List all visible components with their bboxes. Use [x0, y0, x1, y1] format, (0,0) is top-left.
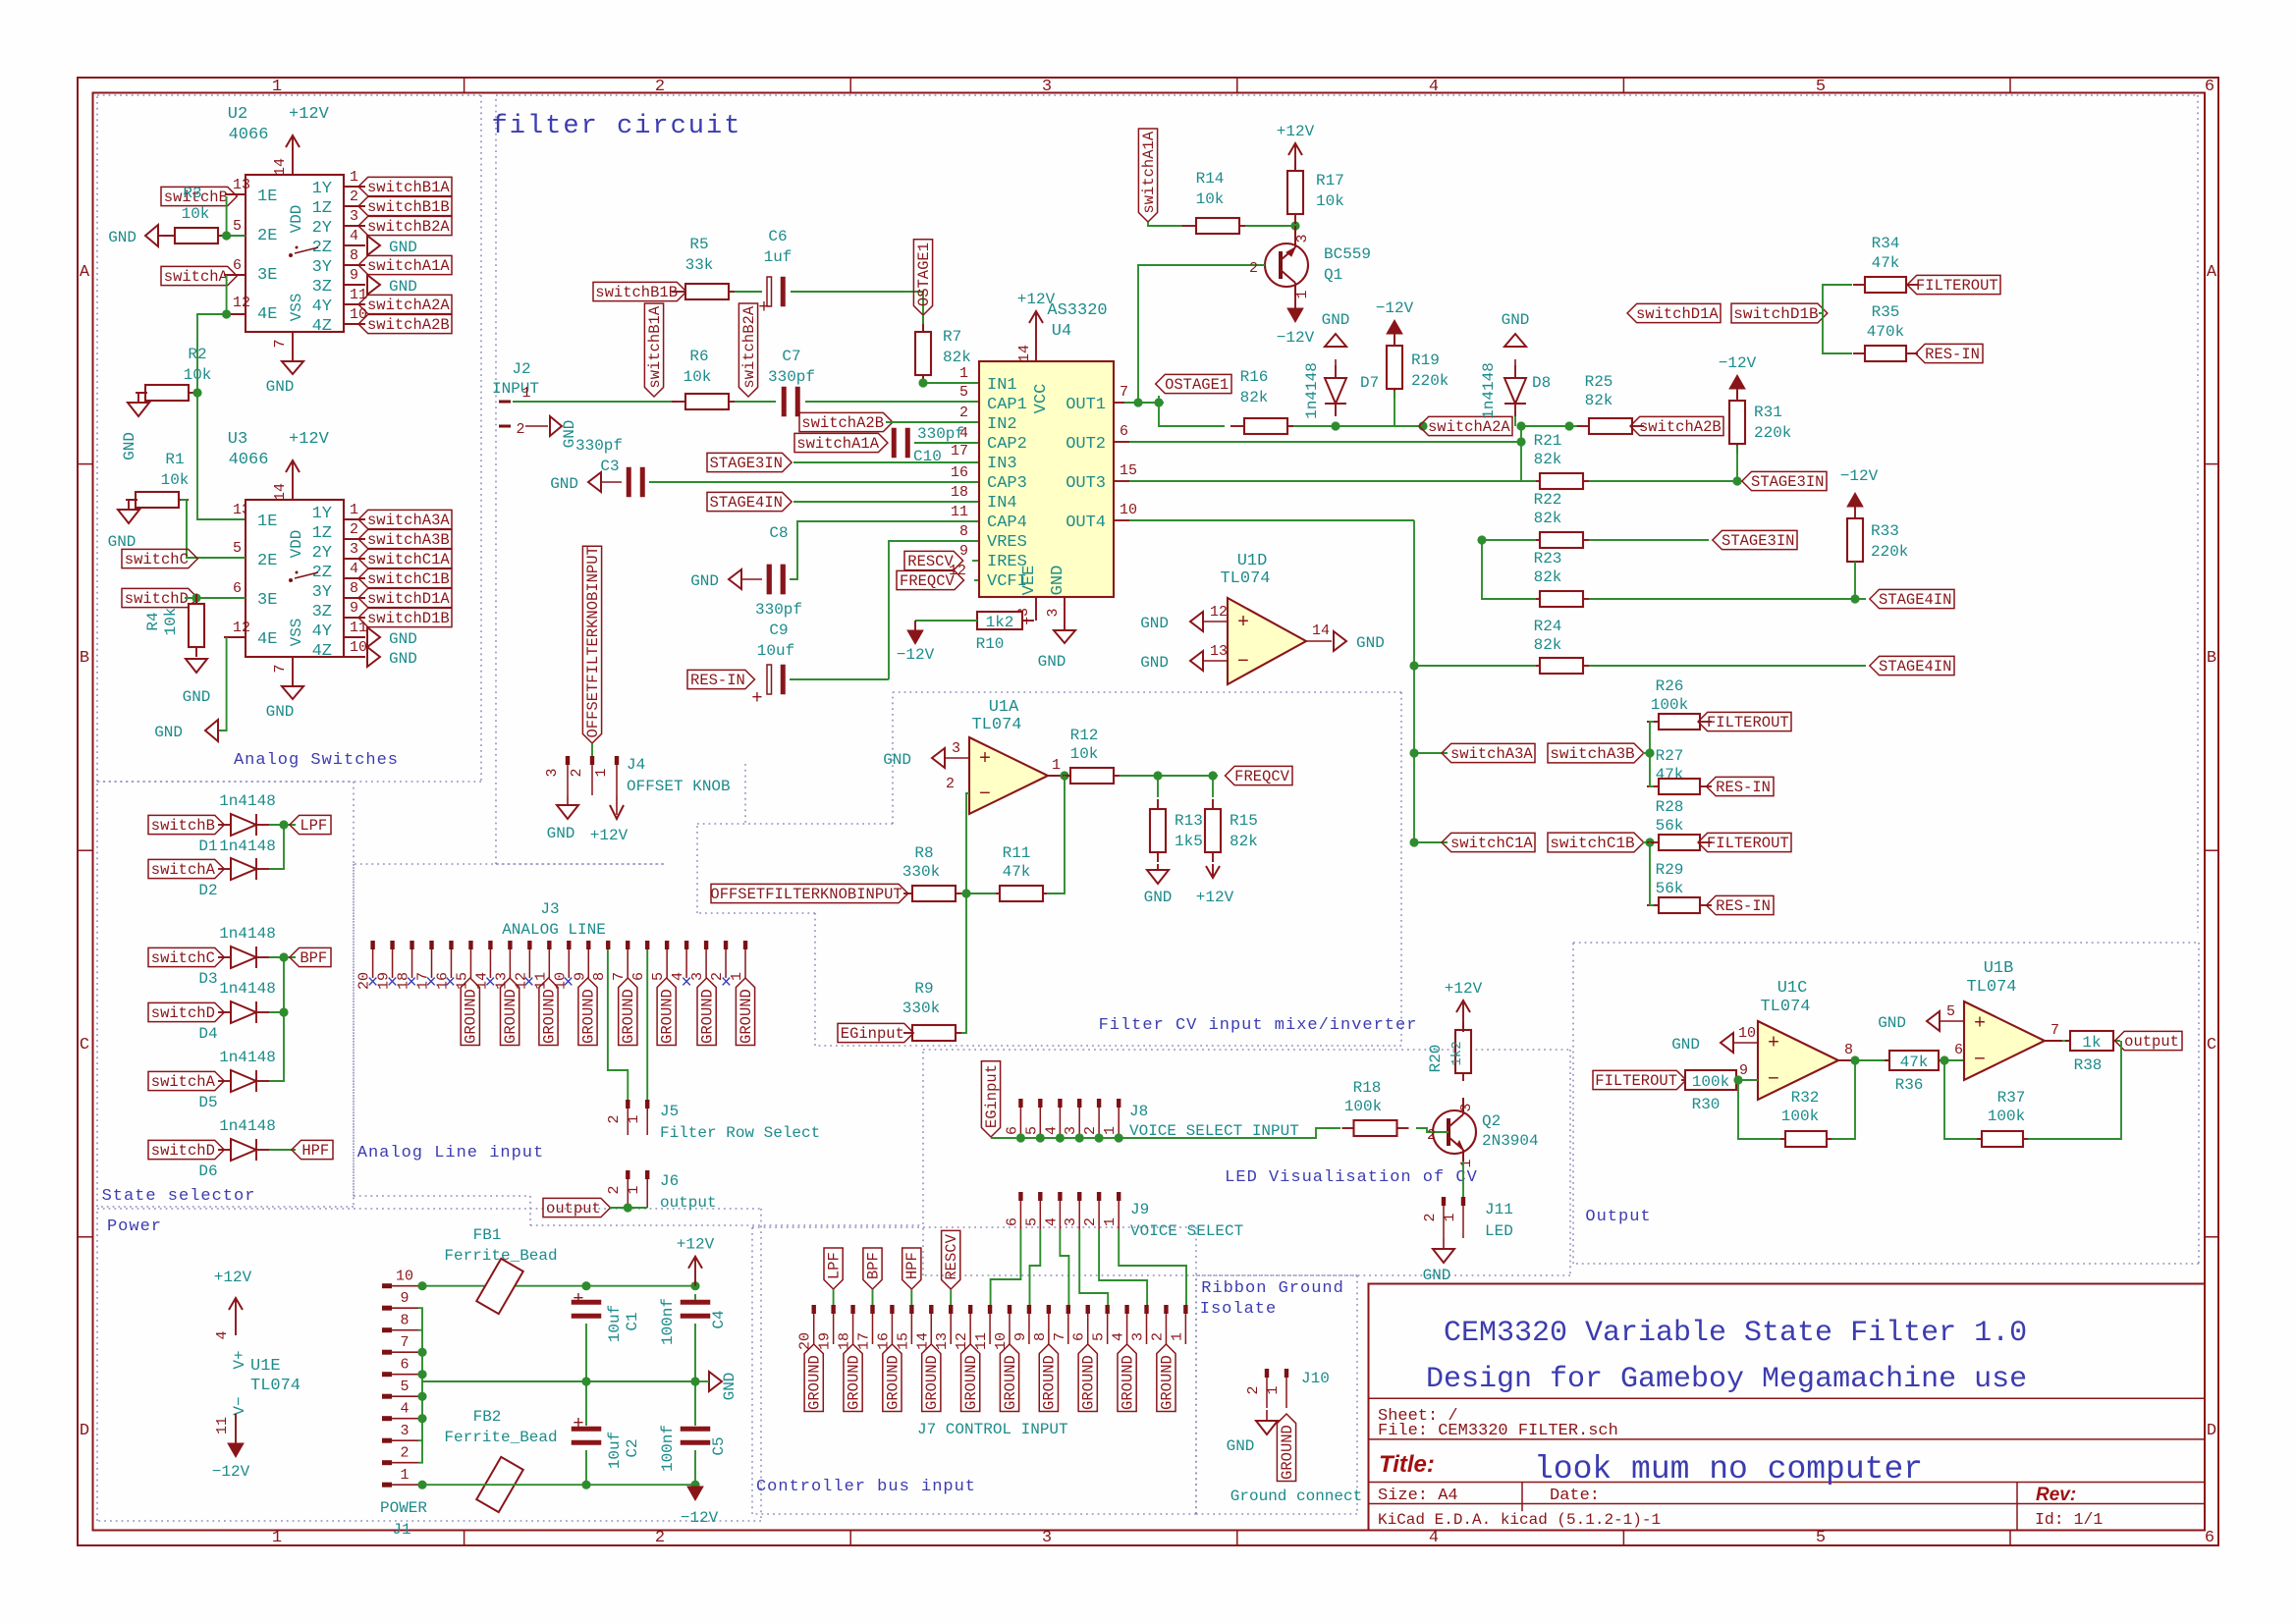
svg-text:R19: R19: [1411, 352, 1440, 369]
wire OUT4 pin 10 long to U1D region: [1114, 519, 1129, 521]
svg-text:OSTAGE1: OSTAGE1: [1165, 376, 1229, 394]
svg-text:−: −: [1974, 1049, 1986, 1071]
U2 pin 13 wire and label switchB: [225, 193, 246, 195]
svg-text:3: 3: [1042, 1529, 1052, 1547]
svg-text:13: 13: [1210, 643, 1228, 660]
wire C10 to CAP2 pin 4: [914, 442, 979, 444]
J3 pin 11 GROUND label: [539, 978, 558, 1045]
wire bus to R22: [1482, 539, 1536, 541]
svg-text:GROUND: GROUND: [698, 989, 716, 1044]
svg-text:82k: 82k: [1240, 389, 1269, 406]
svg-text:OUT4: OUT4: [1066, 514, 1106, 532]
svg-text:GROUND: GROUND: [620, 989, 637, 1044]
svg-text:Title:: Title:: [1379, 1451, 1435, 1478]
U4 VEE pin 13 to R10: [1035, 597, 1037, 621]
svg-text:POWER: POWER: [380, 1499, 427, 1517]
svg-text:×: ×: [484, 972, 495, 994]
wire J9 to J7 pin 7: [1060, 1229, 1068, 1305]
svg-text:RESCV: RESCV: [943, 1233, 960, 1279]
svg-text:look mum no computer: look mum no computer: [1534, 1451, 1923, 1488]
svg-text:switchD1A: switchD1A: [367, 590, 450, 608]
svg-text:1: 1: [350, 502, 358, 518]
svg-text:+: +: [1237, 612, 1249, 634]
resistor R10 1k2: [965, 620, 977, 622]
wire switchA2A net down to R21: [1520, 426, 1522, 481]
svg-text:Isolate: Isolate: [1200, 1300, 1277, 1319]
wire pin12 net to R2: [197, 314, 227, 393]
svg-text:17: 17: [951, 443, 968, 460]
J3 pin 12: [527, 941, 531, 949]
J8 pin 4: [1058, 1099, 1062, 1108]
svg-text:3: 3: [350, 541, 358, 558]
J3 pin 1: [743, 941, 747, 949]
svg-text:output: output: [546, 1200, 601, 1217]
svg-text:−12V: −12V: [1376, 299, 1414, 317]
svg-text:5: 5: [233, 540, 242, 557]
svg-text:R13: R13: [1175, 812, 1203, 830]
transistor Q2 2N3904: [1433, 1110, 1476, 1154]
svg-text:GND: GND: [1140, 615, 1169, 632]
connector J4 OFFSET KNOB pins: [566, 756, 570, 765]
svg-text:Analog Line input: Analog Line input: [357, 1144, 544, 1163]
svg-text:FREQCV: FREQCV: [1234, 768, 1290, 785]
J7 pin 1: [1183, 1305, 1187, 1314]
svg-text:J6: J6: [660, 1172, 679, 1190]
svg-text:18: 18: [951, 484, 968, 501]
svg-text:+: +: [1974, 1013, 1986, 1036]
svg-text:−12V: −12V: [212, 1463, 250, 1481]
svg-text:R34: R34: [1872, 235, 1900, 252]
svg-text:C9: C9: [769, 622, 788, 639]
svg-text:19: 19: [817, 1332, 834, 1350]
svg-text:47k: 47k: [1003, 863, 1031, 881]
svg-text:R21: R21: [1534, 432, 1562, 450]
svg-text:+: +: [758, 297, 769, 318]
hier label RES-IN at R27: [1707, 777, 1774, 795]
J7 pin 8: [1047, 1305, 1051, 1314]
svg-text:D5: D5: [198, 1094, 217, 1111]
svg-text:6: 6: [233, 580, 242, 597]
svg-text:GND: GND: [389, 239, 417, 256]
wire R2 net down to U3 pin 13: [197, 393, 246, 519]
svg-text:4: 4: [1043, 1217, 1060, 1226]
svg-text:15: 15: [1120, 462, 1137, 479]
svg-text:220k: 220k: [1411, 372, 1449, 390]
vertical label RESCV at J7: [942, 1230, 960, 1289]
svg-text:14: 14: [1016, 345, 1033, 362]
svg-text:1: 1: [1169, 1332, 1185, 1341]
svg-text:11: 11: [973, 1332, 990, 1350]
wire C9 to VRES net: [790, 678, 889, 680]
svg-text:GND: GND: [1322, 311, 1350, 329]
resistor R15 82k vertical: [1212, 799, 1214, 809]
svg-text:EGinput: EGinput: [841, 1025, 904, 1043]
svg-text:7: 7: [2050, 1022, 2059, 1039]
svg-text:3: 3: [1294, 234, 1311, 243]
J3 pin 7: [626, 941, 629, 949]
wire OUT3 pin 15 to R21 row: [1114, 480, 1129, 482]
svg-text:RES-IN: RES-IN: [1716, 897, 1771, 915]
J1 pin 5: [382, 1394, 392, 1399]
svg-text:56k: 56k: [1656, 817, 1684, 835]
svg-text:U4: U4: [1052, 322, 1071, 341]
svg-text:2: 2: [569, 768, 585, 777]
svg-text:CAP4: CAP4: [987, 514, 1027, 532]
svg-text:4: 4: [350, 228, 358, 244]
svg-text:GND: GND: [108, 229, 137, 246]
power -12V at R19: [1394, 332, 1395, 344]
svg-text:C: C: [80, 1036, 89, 1055]
svg-text:3: 3: [952, 740, 960, 757]
svg-text:2: 2: [1245, 1385, 1262, 1394]
svg-text:switchB1B: switchB1B: [595, 284, 678, 301]
svg-text:OUT2: OUT2: [1066, 435, 1106, 454]
svg-text:CAP3: CAP3: [987, 474, 1027, 493]
svg-text:1: 1: [593, 768, 610, 777]
J3 pin 5 GROUND label: [657, 978, 676, 1045]
svg-text:R36: R36: [1895, 1076, 1924, 1094]
hier label OFFSETFILTERKNOBINPUT: [711, 884, 908, 902]
svg-text:2: 2: [1149, 1332, 1166, 1341]
hier label FILTEROUT at R26: [1698, 712, 1791, 730]
svg-text:1: 1: [626, 1185, 642, 1194]
gnd above D8: [1514, 359, 1516, 365]
svg-text:1n4148: 1n4148: [219, 1049, 276, 1066]
J9 pin 2: [1097, 1192, 1101, 1201]
svg-text:GROUND: GROUND: [540, 989, 558, 1044]
svg-text:×: ×: [425, 972, 436, 994]
transistor Q1 BC559: [1265, 243, 1308, 287]
J3 pin 14: [488, 941, 492, 949]
svg-text:1k2: 1k2: [1449, 1041, 1465, 1065]
power -12V at R10: [915, 620, 977, 622]
svg-text:2: 2: [1082, 1126, 1099, 1135]
wire J3 pin 8 to J5 pin 2: [608, 949, 628, 1100]
ladder row switchC1A: [1414, 841, 1448, 843]
U3 pin 14 VDD: [292, 480, 294, 500]
resistor R20 1k2 vertical: [1462, 1022, 1464, 1030]
wire R8 node up to U1A pin2: [966, 793, 969, 893]
IC U2 4066 body: [246, 175, 344, 332]
svg-text:3: 3: [1042, 78, 1052, 96]
svg-text:+12V: +12V: [289, 105, 330, 124]
wire R8 node to R11: [966, 893, 996, 894]
svg-text:1: 1: [959, 365, 968, 382]
svg-text:GND: GND: [721, 1373, 738, 1401]
J3 pin 17: [429, 941, 433, 949]
svg-text:GROUND: GROUND: [845, 1355, 862, 1410]
svg-text:×: ×: [406, 972, 416, 994]
resistor R38 1k value inside: [2065, 1040, 2070, 1042]
svg-text:5: 5: [1816, 78, 1826, 96]
J7 pin 16 GROUND label: [883, 1344, 902, 1411]
svg-text:switchA: switchA: [151, 861, 216, 879]
Q1 collector wire from R17 junction: [1294, 226, 1296, 247]
Q2 emitter down to J11: [1462, 1150, 1464, 1162]
svg-text:3Y: 3Y: [312, 583, 332, 602]
svg-text:VSS: VSS: [288, 294, 305, 322]
svg-text:1n4148: 1n4148: [219, 838, 276, 855]
J8 pin 5: [1038, 1099, 1042, 1108]
hier label OSTAGE1 at OUT1: [1156, 374, 1231, 393]
svg-text:×: ×: [387, 972, 398, 994]
hier label switchA2A: [1419, 416, 1512, 435]
svg-text:7: 7: [272, 339, 289, 348]
wire R3 to pin 5: [222, 235, 246, 237]
J9 pin 1: [1117, 1192, 1121, 1201]
svg-text:7: 7: [1120, 384, 1128, 401]
svg-text:switchA2B: switchA2B: [801, 414, 884, 432]
section box Analog Switches: [97, 94, 481, 96]
svg-text:RES-IN: RES-IN: [1925, 346, 1980, 363]
J8 pin 6: [1018, 1099, 1022, 1108]
svg-text:switchD: switchD: [125, 590, 189, 608]
connector J11 LED: [1442, 1197, 1446, 1206]
hier label switchD: [122, 588, 197, 607]
capacitor C5 100nf: [681, 1427, 710, 1432]
hier label FREQCV to VCFI pin 12: [897, 570, 963, 589]
J7 pin 10 GROUND label: [1000, 1344, 1018, 1411]
U2 switch glyph: [289, 253, 293, 257]
svg-text:4: 4: [1429, 78, 1439, 96]
svg-text:GND: GND: [690, 572, 719, 590]
J3 pin 11: [547, 941, 551, 949]
svg-text:5: 5: [400, 1379, 409, 1395]
svg-text:J11: J11: [1485, 1201, 1513, 1218]
svg-text:TL074: TL074: [1760, 998, 1810, 1016]
U1D pin 13 GND: [1203, 660, 1228, 662]
svg-text:−12V: −12V: [681, 1509, 719, 1527]
U1B pin 5 GND: [1940, 1020, 1964, 1022]
svg-text:33k: 33k: [685, 256, 714, 274]
svg-text:4Z: 4Z: [312, 642, 332, 661]
wire J9 to J7 pin 9: [1030, 1229, 1041, 1305]
svg-text:10: 10: [350, 639, 367, 656]
svg-text:switchB2A: switchB2A: [367, 218, 450, 236]
hier label switchA2B right: [1630, 416, 1723, 435]
svg-text:output: output: [660, 1194, 717, 1212]
hier label switchA1A: [794, 433, 888, 452]
junction at pin5/switchB net: [226, 196, 228, 236]
J1 pin 8: [382, 1327, 392, 1332]
svg-text:A: A: [2207, 263, 2217, 282]
svg-text:1k2: 1k2: [986, 614, 1014, 631]
svg-text:GND: GND: [1502, 311, 1530, 329]
J7 pin 2: [1164, 1305, 1168, 1314]
svg-text:J9: J9: [1130, 1201, 1149, 1218]
svg-text:switchD1B: switchD1B: [367, 610, 450, 627]
svg-text:output: output: [2124, 1033, 2179, 1051]
svg-text:R29: R29: [1656, 861, 1684, 879]
svg-text:Power: Power: [107, 1217, 162, 1236]
svg-text:8: 8: [959, 523, 968, 540]
svg-text:+: +: [573, 1288, 583, 1310]
svg-text:D4: D4: [198, 1025, 217, 1043]
hier label STAGE3IN row1: [1742, 471, 1827, 490]
wire VRES pin 8: [889, 541, 979, 679]
wire J2 pin1 to CAP1 input chain: [513, 401, 676, 403]
svg-text:switchB2A: switchB2A: [740, 305, 758, 388]
J7 pin 4 GROUND label: [1118, 1344, 1136, 1411]
J8 pin 1: [1117, 1099, 1121, 1108]
feedback wire U1B: [1944, 1060, 1977, 1139]
wire C7 to U4 CAP1 pin 5: [805, 401, 979, 403]
wire R23 left to bus x1509: [1482, 540, 1536, 599]
wire R38 to output label: [2116, 1040, 2120, 1042]
J9 pin 6: [1018, 1192, 1022, 1201]
svg-text:GND: GND: [550, 475, 578, 493]
svg-text:C5: C5: [710, 1436, 728, 1455]
svg-text:4066: 4066: [229, 126, 269, 144]
svg-text:GND: GND: [1144, 889, 1173, 906]
svg-text:FILTEROUT: FILTEROUT: [1595, 1072, 1677, 1090]
svg-text:11: 11: [350, 287, 367, 303]
capacitor C6 1uf polarized: [735, 291, 762, 293]
J3 pin 18: [410, 941, 413, 949]
svg-text:AS3320: AS3320: [1047, 301, 1107, 320]
svg-text:R28: R28: [1656, 798, 1684, 816]
gnd at R13: [1147, 870, 1169, 884]
svg-text:2Y: 2Y: [312, 544, 332, 563]
hier label STAGE3IN row2: [1713, 530, 1797, 549]
svg-text:330pf: 330pf: [755, 601, 802, 619]
svg-text:R37: R37: [1997, 1089, 2026, 1107]
J7 pin 14 GROUND label: [922, 1344, 941, 1411]
svg-text:17: 17: [855, 1332, 872, 1350]
J3 pin 8: [606, 941, 610, 949]
section box Filter CV input mixe/inverter: [697, 823, 893, 825]
J1 pin 3: [382, 1438, 392, 1443]
wire R18 to Q2 base: [1416, 1128, 1449, 1132]
J7 pin 7: [1066, 1305, 1070, 1314]
svg-text:GND: GND: [1423, 1267, 1451, 1284]
U3 pin 10 GND: [344, 656, 365, 658]
power +12V at R20: [1462, 1001, 1464, 1032]
wire R21 to STAGE3IN label: [1589, 480, 1738, 482]
svg-text:EGinput: EGinput: [983, 1064, 1001, 1128]
svg-text:GND: GND: [183, 688, 211, 706]
svg-text:4: 4: [1111, 1332, 1127, 1341]
svg-text:11: 11: [350, 620, 367, 636]
svg-text:GROUND: GROUND: [1041, 1355, 1059, 1410]
J7 pin 18 GROUND label: [844, 1344, 862, 1411]
svg-text:100nf: 100nf: [659, 1298, 677, 1345]
svg-text:9: 9: [1739, 1062, 1748, 1079]
svg-text:5: 5: [1091, 1332, 1108, 1341]
svg-text:14: 14: [272, 158, 289, 176]
svg-text:3Y: 3Y: [312, 258, 332, 277]
svg-text:3E: 3E: [257, 591, 277, 610]
J1 pin 2: [382, 1460, 392, 1465]
J3 pin 6: [645, 941, 649, 949]
svg-text:State selector: State selector: [102, 1187, 256, 1206]
svg-text:OFFSETFILTERKNOBINPUT: OFFSETFILTERKNOBINPUT: [584, 546, 602, 737]
svg-text:R11: R11: [1003, 844, 1031, 862]
svg-text:J5: J5: [660, 1103, 679, 1120]
power -12V at rail: [687, 1487, 703, 1500]
J7 pin 16: [890, 1305, 894, 1314]
svg-text:D2: D2: [198, 882, 217, 899]
wire R26 net: [1650, 722, 1654, 753]
svg-text:100k: 100k: [1651, 696, 1688, 714]
U3 pin 3 label switchC1A: [344, 558, 365, 560]
svg-text:−: −: [1768, 1068, 1779, 1091]
svg-text:2: 2: [516, 421, 524, 438]
U3 switch glyph: [289, 578, 293, 582]
J7 pin 11: [988, 1305, 992, 1314]
J3 pin 7 GROUND label: [619, 978, 637, 1045]
svg-text:Ferrite_Bead: Ferrite_Bead: [444, 1429, 557, 1446]
J7 pin 10: [1008, 1305, 1011, 1314]
svg-text:GND: GND: [1140, 654, 1169, 672]
U1D pin 14 GND output: [1306, 640, 1332, 642]
svg-text:R5: R5: [689, 236, 708, 253]
svg-text:STAGE3IN: STAGE3IN: [1751, 473, 1824, 491]
svg-text:GROUND: GROUND: [1119, 1355, 1136, 1410]
svg-text:1n4148: 1n4148: [219, 980, 276, 998]
svg-text:D1: D1: [198, 838, 217, 855]
svg-text:2: 2: [350, 521, 358, 538]
state selector D2 row: switchA diode: [148, 859, 224, 878]
svg-text:+: +: [979, 748, 991, 771]
svg-text:VDD: VDD: [288, 530, 305, 559]
svg-text:GND: GND: [1049, 566, 1067, 596]
svg-text:1n4148: 1n4148: [1480, 362, 1498, 419]
ladder row switchA2A right part: [1521, 425, 1578, 427]
svg-text:switchA3B: switchA3B: [1550, 745, 1634, 763]
hier label output: [2115, 1031, 2182, 1050]
state selector D4 row: switchD diode: [148, 1002, 224, 1021]
svg-text:J8: J8: [1129, 1103, 1148, 1120]
svg-text:R9: R9: [914, 980, 933, 998]
svg-text:TL074: TL074: [971, 716, 1021, 734]
vertical label switchB2A: [738, 303, 757, 397]
svg-text:FILTEROUT: FILTEROUT: [1707, 714, 1789, 731]
svg-text:1E: 1E: [257, 188, 277, 206]
wire OUT2 pin 6 to ladder: [1114, 441, 1129, 443]
svg-text:R22: R22: [1534, 491, 1562, 509]
U3 pin 11 GND: [344, 636, 365, 638]
svg-text:6: 6: [1004, 1126, 1020, 1135]
svg-text:GROUND: GROUND: [659, 989, 677, 1044]
hier label RES-IN at R29: [1707, 895, 1774, 914]
svg-text:OUT1: OUT1: [1066, 396, 1106, 414]
wire C6 to U4 IN1 pin 1: [791, 292, 979, 383]
IC U3 4066 body: [246, 500, 344, 657]
svg-text:4: 4: [350, 561, 358, 577]
wire R14 to R17 junction: [1245, 225, 1295, 227]
svg-text:3: 3: [1063, 1217, 1079, 1226]
svg-text:2: 2: [655, 1529, 665, 1547]
label switchD1B: [1731, 303, 1828, 323]
svg-text:330pf: 330pf: [575, 437, 623, 455]
svg-text:R25: R25: [1585, 373, 1613, 391]
hier label switchA2B: [799, 412, 893, 431]
svg-text:C6: C6: [768, 228, 787, 245]
svg-text:3: 3: [544, 768, 561, 777]
svg-text:3: 3: [1063, 1126, 1079, 1135]
svg-text:82k: 82k: [943, 349, 971, 366]
svg-text:82k: 82k: [1534, 510, 1562, 527]
svg-text:8: 8: [350, 580, 358, 597]
section box Ribbon Ground Isolate: [1196, 1274, 1357, 1276]
svg-text:+12V: +12V: [214, 1269, 252, 1286]
svg-text:10k: 10k: [161, 471, 190, 489]
svg-text:×: ×: [523, 972, 534, 994]
svg-text:VEE: VEE: [1020, 566, 1039, 596]
svg-text:R10: R10: [976, 635, 1005, 653]
U2 pin 14 VDD: [292, 155, 294, 175]
